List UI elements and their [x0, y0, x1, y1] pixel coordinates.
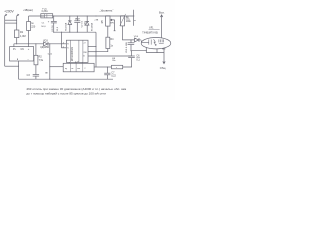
- svg-text:Вых.: Вых.: [159, 11, 165, 15]
- svg-text:30к: 30к: [112, 60, 115, 62]
- wire lower box right pin: [94, 66, 96, 68]
- svg-text:th: th: [83, 54, 85, 57]
- IC lower section box: [63, 63, 94, 72]
- svg-text:МБМ: МБМ: [75, 19, 80, 21]
- wire diode VD3 to IC bus: [48, 43, 66, 45]
- svg-text:КС168А: КС168А: [90, 23, 93, 31]
- svg-text:R1: R1: [20, 31, 24, 34]
- svg-text:+: +: [28, 48, 30, 51]
- wire IC bottom pin stubs: [69, 61, 82, 64]
- svg-text:С3: С3: [27, 74, 31, 77]
- wire IC pin stub right 1: [88, 46, 96, 48]
- node junction C1 top: [53, 15, 54, 16]
- node junction M1 on ground rail: [18, 66, 19, 67]
- wire horizontal node to diode VD3: [14, 43, 44, 45]
- node junction R1/VD3: [16, 43, 17, 44]
- wire lower box left pin: [50, 66, 63, 68]
- svg-text:С2·0,1: С2·0,1: [81, 20, 83, 27]
- svg-text:100к: 100к: [126, 20, 132, 23]
- svg-text:50,0: 50,0: [57, 26, 59, 31]
- wire VD3 branch down: [49, 44, 51, 79]
- terminal arrow common Общ: [162, 48, 165, 64]
- op-amp timer IC DA1: [66, 40, 88, 62]
- svg-text:1,0М: 1,0М: [20, 35, 26, 38]
- svg-text:+9В: +9В: [94, 19, 98, 21]
- capacitor C6: [131, 51, 133, 56]
- wire R4 bottom link: [96, 49, 108, 52]
- wire supply elbow: [29, 16, 45, 22]
- svg-text:М1: М1: [21, 49, 25, 51]
- svg-text:VЛ1: VЛ1: [149, 27, 154, 30]
- svg-text:С6: С6: [136, 55, 140, 58]
- wire rung upper between supply leads: [5, 19, 17, 21]
- svg-text:ВК: ВК: [45, 73, 48, 75]
- wire R2 bottom to C3: [35, 65, 37, 75]
- capacitor C3: [33, 74, 39, 76]
- node junction branch on ground rail: [49, 79, 50, 80]
- zener VD2: [85, 16, 89, 32]
- wire zener lower rail: [54, 31, 96, 33]
- svg-text:2: 2: [84, 68, 85, 70]
- svg-text:овт: овт: [77, 68, 80, 70]
- svg-text:R: R: [67, 43, 69, 45]
- capacitor C2: [76, 16, 78, 21]
- svg-text:220: 220: [31, 26, 36, 29]
- wire rung lower between supply leads: [5, 22, 17, 24]
- svg-text:„Уровень“: „Уровень“: [100, 9, 114, 13]
- svg-text:R5: R5: [102, 20, 104, 24]
- terminal arrow left +200V: [5, 14, 7, 66]
- wire IC output pin to C6: [88, 55, 132, 57]
- svg-text:+9: +9: [83, 43, 86, 45]
- svg-text:ву: ву: [65, 68, 67, 70]
- svg-text:SW: SW: [83, 52, 86, 54]
- svg-text:7,5к: 7,5к: [39, 59, 44, 62]
- svg-text:50,0: 50,0: [41, 26, 46, 28]
- fuse FU1: [41, 14, 53, 18]
- wire M1 box bottom down to ground rail: [18, 61, 20, 79]
- svg-text:Общ.: Общ.: [160, 66, 167, 70]
- wire R1 bottom to node: [16, 38, 18, 44]
- svg-text:С1: С1: [42, 22, 46, 24]
- thyratron starter zigzag: [154, 39, 157, 45]
- svg-text:до т помощь набирай с после 85: до т помощь набирай с после 85 циклов до…: [26, 91, 106, 95]
- wiper of R5: [110, 19, 114, 21]
- svg-text:+: +: [48, 20, 50, 23]
- wire top supply rail: [53, 15, 135, 17]
- svg-text:Рч: Рч: [13, 49, 17, 51]
- svg-text:+9В(мах): +9В(мах): [23, 10, 33, 12]
- capacitor C1 polarized: [53, 16, 55, 21]
- resistor R4: [106, 37, 110, 48]
- terminal arrow right +200V: [17, 14, 19, 30]
- wire R3 down to M1 box: [28, 30, 30, 46]
- capacitor C7: [106, 67, 108, 73]
- thyratron anode electrodes: [159, 39, 164, 43]
- thyratron starter lead and cathode electrodes: [139, 40, 151, 45]
- wire IC pin stub left lower: [61, 47, 66, 49]
- wire left supply elbow to box stub: [5, 65, 19, 67]
- node junction VD1 top: [69, 15, 70, 16]
- potentiometer R5: [106, 16, 110, 26]
- wire R4 top to R5: [107, 26, 109, 37]
- node junction VD3 cathode branch: [49, 43, 50, 44]
- node junction C1 bottom: [53, 32, 54, 33]
- resistor R1: [15, 30, 19, 38]
- wire cathode drops: [146, 48, 157, 53]
- svg-text:+200V: +200V: [4, 9, 14, 13]
- node junction C5/C6 mid: [130, 50, 131, 51]
- node junction C2 top: [77, 15, 78, 16]
- wire IC left bus from rail: [60, 32, 62, 48]
- svg-text:1к: 1к: [110, 44, 113, 47]
- wire bus to R8: [96, 66, 112, 68]
- svg-text:1к: 1к: [31, 22, 34, 25]
- node junction R2 top: [35, 43, 36, 44]
- svg-text:вз: вз: [71, 68, 73, 70]
- motor M1 box: [10, 47, 34, 61]
- wire R6 bottom elbow to C5 node: [123, 26, 132, 40]
- thyratron VL1: [141, 38, 171, 49]
- node junction VD2 top: [87, 15, 88, 16]
- svg-text:КС156А: КС156А: [64, 22, 67, 30]
- capacitor C5: [130, 40, 132, 43]
- node junction 220-column crossing: [28, 43, 29, 44]
- resistor R8: [112, 65, 123, 69]
- svg-text:КД105Б: КД105Б: [40, 46, 49, 49]
- svg-text:0,25А: 0,25А: [42, 10, 48, 13]
- svg-text:0,1: 0,1: [136, 58, 140, 61]
- svg-text:ТХ4Б(МТХ-90): ТХ4Б(МТХ-90): [142, 32, 158, 34]
- svg-text:R4: R4: [110, 38, 114, 41]
- resistor R2: [35, 44, 37, 56]
- wire IC right bus: [95, 32, 97, 67]
- node junction C5 top: [130, 39, 131, 40]
- wire mid node to cathode rail: [132, 51, 164, 53]
- wire rail end vertical element: [133, 10, 135, 26]
- svg-text:КР1006ВИ1: КР1006ВИ1: [70, 46, 74, 61]
- node junction C2 bottom: [77, 32, 78, 33]
- diode VD3: [44, 42, 48, 46]
- wire IC pin stub right 2: [88, 51, 96, 53]
- svg-text:VD4: VD4: [134, 36, 139, 38]
- zener VD1: [68, 16, 72, 32]
- svg-text:VD3: VD3: [43, 39, 48, 42]
- resistor R3 1к: [27, 22, 31, 31]
- svg-text:0,1н: 0,1н: [48, 53, 53, 55]
- svg-text:К50-6·16В: К50-6·16В: [126, 42, 128, 53]
- variable resistor R6: [121, 16, 125, 26]
- node junction VD1 bottom: [69, 32, 70, 33]
- wire node to M1 box top: [13, 44, 15, 47]
- diode VD4: [131, 38, 139, 42]
- svg-text:КС-50: КС-50: [52, 25, 54, 32]
- svg-text:0,22: 0,22: [111, 74, 116, 77]
- svg-text:S: S: [67, 47, 69, 49]
- ground rail bottom: [19, 78, 114, 80]
